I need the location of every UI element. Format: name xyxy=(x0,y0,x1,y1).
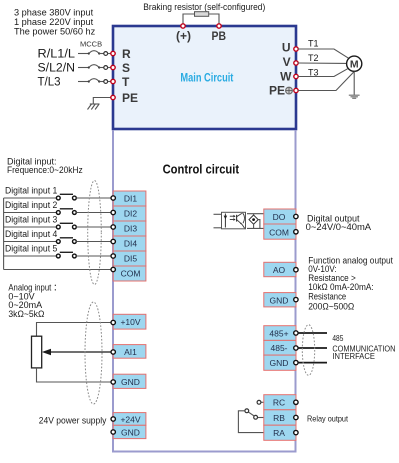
svg-text:S: S xyxy=(122,61,130,75)
note function analog output xyxy=(308,256,393,312)
note digital output xyxy=(306,213,372,232)
svg-text:MCCB: MCCB xyxy=(80,40,102,49)
svg-text:Digital input 1: Digital input 1 xyxy=(5,186,57,196)
svg-text:T/L3: T/L3 xyxy=(38,77,61,89)
svg-text:485+: 485+ xyxy=(269,328,288,338)
svg-text:PE: PE xyxy=(269,84,285,98)
terminal V xyxy=(283,55,299,69)
breaker R wire xyxy=(78,51,111,56)
note 485 interface xyxy=(332,334,395,361)
terminal block DI5 xyxy=(111,251,146,266)
svg-text:GND: GND xyxy=(270,358,289,368)
terminal block AO xyxy=(264,262,298,276)
terminal block +10V xyxy=(111,314,146,329)
label Main Circuit xyxy=(180,73,233,85)
note relay output xyxy=(307,413,349,423)
terminal PB xyxy=(212,24,227,43)
switch DI5 wire xyxy=(4,252,111,258)
terminal block RC xyxy=(264,395,298,410)
bridge rectifier diamond xyxy=(247,214,264,229)
label Digital input 3 xyxy=(5,215,57,225)
svg-text:W: W xyxy=(280,70,292,84)
label T3 xyxy=(308,68,319,78)
input label S/L2/N xyxy=(38,63,76,75)
terminal block GND 24V xyxy=(111,425,146,438)
relay contact xyxy=(238,400,263,432)
svg-text:The power 50/60 hz: The power 50/60 hz xyxy=(14,27,96,37)
wire PB to resistor xyxy=(209,14,219,25)
label Digital input 2 xyxy=(5,200,57,210)
svg-text:T: T xyxy=(122,75,130,89)
svg-text:(+): (+) xyxy=(176,29,191,43)
svg-text:GND: GND xyxy=(121,427,140,437)
svg-text:DI1: DI1 xyxy=(124,194,138,204)
svg-text:Digital input 5: Digital input 5 xyxy=(5,244,57,254)
wire 485- xyxy=(298,347,327,349)
svg-text:Relay output: Relay output xyxy=(307,413,349,423)
label Digital input 4 xyxy=(5,229,57,239)
shield ellipse digital inputs xyxy=(88,181,102,285)
input label R/L1/L xyxy=(38,49,76,61)
terminal PE xyxy=(111,91,138,105)
svg-text:RB: RB xyxy=(273,413,285,423)
svg-text:AO: AO xyxy=(273,265,286,275)
terminal block RA xyxy=(264,425,298,440)
braking resistor label xyxy=(143,2,265,12)
svg-text:Resistance: Resistance xyxy=(308,291,346,301)
wire U to motor xyxy=(298,49,349,58)
svg-text:M: M xyxy=(350,59,359,71)
svg-text:3kΩ~5kΩ: 3kΩ~5kΩ xyxy=(8,309,44,319)
breaker T wire xyxy=(78,79,111,84)
svg-text:485-: 485- xyxy=(270,343,287,353)
wire 485+ xyxy=(298,332,327,334)
svg-text:Frequence:0~20kHz: Frequence:0~20kHz xyxy=(7,165,83,175)
svg-text:R: R xyxy=(122,47,131,61)
svg-text:GND: GND xyxy=(270,295,289,305)
terminal block DI2 xyxy=(111,206,146,221)
terminal block DI3 xyxy=(111,221,146,236)
terminal block GND AO xyxy=(264,293,298,307)
terminal block 485- xyxy=(264,340,298,355)
svg-text:R/L1/L: R/L1/L xyxy=(38,49,76,61)
wire potentiometer to GND xyxy=(37,368,111,382)
wire V to motor xyxy=(298,62,346,64)
ground PE input xyxy=(88,104,100,110)
svg-text:+10V: +10V xyxy=(120,317,140,327)
ground motor xyxy=(349,72,360,99)
svg-text:GND: GND xyxy=(121,377,140,387)
label T1 xyxy=(308,39,319,49)
label T2 xyxy=(308,53,319,63)
label 24V power supply xyxy=(39,415,107,425)
svg-text:PB: PB xyxy=(212,29,227,43)
svg-text:DI5: DI5 xyxy=(124,254,138,264)
switch DI3 wire xyxy=(4,223,111,229)
wire W to motor xyxy=(298,69,348,77)
svg-text:DI3: DI3 xyxy=(124,224,138,234)
svg-text:COM: COM xyxy=(121,269,141,279)
terminal W xyxy=(280,70,298,84)
svg-text:200Ω~500Ω: 200Ω~500Ω xyxy=(308,302,354,312)
svg-text:PE: PE xyxy=(122,91,138,105)
shield ellipse 485 xyxy=(302,325,314,376)
svg-text:DO: DO xyxy=(273,212,286,222)
svg-text:V: V xyxy=(283,55,291,69)
main circuit box xyxy=(113,26,296,129)
breaker S wire xyxy=(78,65,111,70)
wiper wire AI1 xyxy=(42,349,111,355)
terminal block DI1 xyxy=(111,191,146,206)
svg-text:Main Circuit: Main Circuit xyxy=(180,73,233,85)
switch DI1 wire xyxy=(4,194,111,200)
terminal block GND 485 xyxy=(264,355,298,370)
svg-text:INTERFACE: INTERFACE xyxy=(332,352,375,361)
terminal block DI4 xyxy=(111,236,146,251)
terminal T xyxy=(111,75,130,89)
svg-text:COM: COM xyxy=(269,227,289,237)
wire PE to ground xyxy=(93,98,111,105)
input label T/L3 xyxy=(38,77,61,89)
terminal block 485+ xyxy=(264,326,298,341)
svg-text:Braking resistor (self-configu: Braking resistor (self-configured) xyxy=(143,2,265,12)
terminal U xyxy=(282,41,298,55)
terminal block COM output xyxy=(264,224,298,239)
terminal block +24V xyxy=(111,413,146,426)
resistor braking xyxy=(195,12,209,17)
wire +10V to potentiometer xyxy=(37,323,111,337)
shield ellipse analog input xyxy=(85,302,102,404)
switch DI4 wire xyxy=(4,238,111,244)
svg-text:AI1: AI1 xyxy=(124,347,137,357)
terminal PE output xyxy=(269,84,298,98)
label Digital input 1 xyxy=(5,186,57,196)
svg-text:T2: T2 xyxy=(308,53,319,63)
wire GND 485 xyxy=(298,362,327,364)
svg-text:Control circuit: Control circuit xyxy=(163,163,240,177)
note digital input frequency xyxy=(7,156,83,175)
svg-text:DI2: DI2 xyxy=(124,209,138,219)
svg-text:Digital input 4: Digital input 4 xyxy=(5,229,57,239)
label Digital input 5 xyxy=(5,244,57,254)
note 3-phase input xyxy=(14,8,96,37)
svg-text:RA: RA xyxy=(273,428,285,438)
svg-text:0~24V/0~40mA: 0~24V/0~40mA xyxy=(306,222,372,232)
svg-text:S/L2/N: S/L2/N xyxy=(38,63,76,75)
terminal R xyxy=(111,47,131,61)
terminal block GND analog xyxy=(111,374,146,388)
terminal block RB xyxy=(264,410,298,425)
note analog input xyxy=(8,283,61,319)
terminal block AI1 xyxy=(111,345,146,359)
motor M xyxy=(347,56,362,71)
switch DI2 wire xyxy=(4,209,111,215)
svg-text:RC: RC xyxy=(273,398,285,408)
wire PE to motor ground xyxy=(298,72,354,91)
svg-text:U: U xyxy=(282,41,291,55)
terminal (+) xyxy=(176,24,191,43)
wire COM bus xyxy=(4,198,111,270)
label MCCB xyxy=(80,40,102,49)
svg-text:+24V: +24V xyxy=(120,414,140,424)
svg-text:24V power supply: 24V power supply xyxy=(39,415,107,425)
svg-text:3 phase 380V input: 3 phase 380V input xyxy=(14,8,94,18)
svg-text:Digital input 3: Digital input 3 xyxy=(5,215,57,225)
potentiometer xyxy=(32,336,42,368)
terminal block COM input xyxy=(111,266,146,281)
svg-text:DI4: DI4 xyxy=(124,239,138,249)
wire (+) to resistor xyxy=(183,14,195,25)
terminal block DO xyxy=(264,209,298,224)
terminal S xyxy=(111,61,130,75)
optocoupler digital output xyxy=(214,212,246,229)
control circuit boundary xyxy=(113,130,296,452)
svg-text:T1: T1 xyxy=(308,39,319,49)
svg-text:485: 485 xyxy=(332,334,343,343)
svg-text:Digital input 2: Digital input 2 xyxy=(5,200,57,210)
label Control circuit xyxy=(163,163,240,177)
